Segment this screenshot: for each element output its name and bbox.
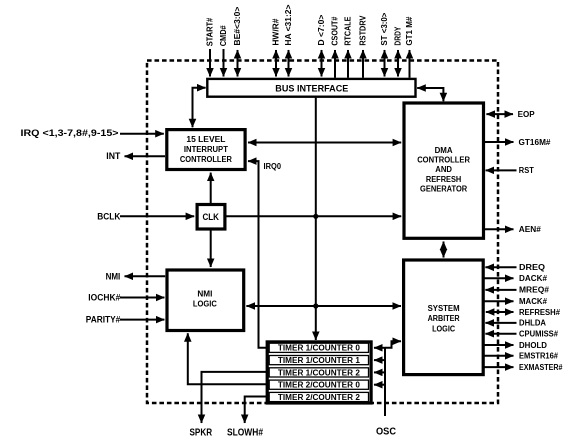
timer row TIMER 1/COUNTER 2 — [269, 368, 368, 377]
svg-text:SLOWH#: SLOWH# — [227, 428, 263, 439]
svg-text:RST: RST — [519, 166, 534, 175]
signal GT1M# — [404, 16, 414, 77]
chip boundary (dashed border) — [147, 61, 498, 404]
wire bus interface to interrupt controller (L-shaped, double arrow) — [193, 88, 206, 128]
signal BE#<3:0> — [232, 7, 242, 77]
wire bus interface down to timers (vertical trunk) — [315, 98, 317, 340]
svg-text:DREQ: DREQ — [519, 263, 545, 272]
wire bus interface to DMA top (L-shaped, double arrow) — [417, 88, 443, 101]
signal START# — [205, 18, 215, 77]
svg-text:IRQ <1,3-7,8#,9-15>: IRQ <1,3-7,8#,9-15> — [21, 128, 120, 139]
block: BUS INTERFACE U1 — [207, 79, 415, 97]
svg-text:IOCHK#: IOCHK# — [88, 293, 121, 304]
svg-text:INTERRUPT: INTERRUPT — [184, 145, 228, 154]
signal D<7:0> — [316, 15, 326, 77]
signal DHOLD output — [485, 341, 548, 350]
svg-text:LOGIC: LOGIC — [432, 325, 455, 334]
svg-text:START#: START# — [205, 18, 215, 47]
block: NMI LOGIC U4 — [167, 270, 244, 331]
signal CPUMISS# input — [485, 330, 558, 339]
signal RSTDRV — [358, 15, 368, 77]
svg-text:NMI: NMI — [106, 271, 121, 282]
svg-text:CMD#: CMD# — [218, 25, 228, 46]
wire IRQ0 from timer1/counter0 to interrupt controller — [248, 161, 282, 348]
svg-text:ST <3:0>: ST <3:0> — [379, 13, 389, 46]
signal SLOWH# output from timer2/counter2 — [227, 397, 266, 439]
signal CMD# — [218, 25, 228, 76]
svg-text:D <7:0>: D <7:0> — [316, 15, 326, 46]
signal DHLDA input — [485, 319, 546, 328]
node junction trunk x NMI-arbiter line — [313, 303, 318, 308]
timer row TIMER 2/COUNTER 0 — [269, 380, 368, 389]
signal NMI output — [106, 271, 166, 282]
block: timer/counter stack U7 — [267, 342, 371, 403]
signal PARITY# input — [86, 315, 165, 326]
svg-text:INT: INT — [106, 151, 120, 162]
svg-text:GT16M#: GT16M# — [519, 138, 552, 147]
wire DMA to system arbiter (vertical double arrow) — [443, 242, 445, 258]
svg-text:DRDY: DRDY — [393, 26, 403, 45]
signal EOP (bidirectional) — [486, 110, 535, 119]
block: 15 LEVEL INTERRUPT CONTROLLER U2 — [167, 130, 245, 170]
signal SPKR output from timer1/counter2 — [190, 372, 267, 439]
svg-text:SYSTEM: SYSTEM — [428, 304, 460, 313]
svg-text:DACK#: DACK# — [519, 274, 548, 283]
signal EMSTR16# output — [485, 352, 559, 361]
svg-text:DHLDA: DHLDA — [519, 319, 546, 328]
signal DACK# output — [485, 274, 548, 283]
signal AEN# output — [485, 225, 541, 234]
svg-text:REFRESH#: REFRESH# — [519, 308, 561, 317]
svg-text:GT1 M#: GT1 M# — [404, 16, 414, 45]
svg-text:HW/R#: HW/R# — [271, 18, 281, 45]
timer row TIMER 1/COUNTER 1 — [269, 356, 368, 365]
svg-text:GENERATOR: GENERATOR — [420, 184, 467, 193]
svg-text:REFRESH: REFRESH — [426, 175, 462, 184]
svg-text:CSOUT#: CSOUT# — [330, 16, 340, 45]
svg-text:TIMER 2/COUNTER 0: TIMER 2/COUNTER 0 — [278, 381, 361, 390]
svg-text:RTCALE: RTCALE — [343, 16, 353, 45]
svg-text:TIMER 1/COUNTER 2: TIMER 1/COUNTER 2 — [278, 368, 361, 377]
svg-text:TIMER 1/COUNTER 1: TIMER 1/COUNTER 1 — [278, 356, 361, 365]
svg-text:AEN#: AEN# — [519, 225, 542, 234]
svg-text:IRQ0: IRQ0 — [264, 162, 282, 171]
block: DMA CONTROLLER AND REFRESH GENERATOR U5 — [404, 103, 484, 238]
wire NMI-logic / system-arbiter connection line — [246, 305, 401, 307]
block: CLK divider U3 — [197, 205, 225, 230]
svg-text:CONTROLLER: CONTROLLER — [180, 155, 232, 164]
signal INT output — [106, 151, 165, 162]
svg-text:AND: AND — [435, 165, 452, 174]
signal RTCALE — [343, 16, 353, 77]
svg-text:PARITY#: PARITY# — [86, 315, 121, 326]
signal HA<31:2> — [283, 5, 293, 77]
signal MACK# output — [485, 297, 548, 306]
svg-text:BCLK: BCLK — [97, 211, 120, 222]
svg-text:OSC: OSC — [376, 427, 396, 438]
svg-text:SPKR: SPKR — [190, 428, 213, 439]
timer row TIMER 2/COUNTER 2 — [269, 392, 368, 401]
svg-text:HA <31:2>: HA <31:2> — [283, 5, 293, 46]
signal DRDY — [393, 26, 403, 76]
signal CSOUT# — [330, 16, 340, 77]
block: SYSTEM ARBITER LOGIC U6 — [404, 260, 484, 375]
signal RST input — [486, 166, 534, 175]
signal IRQ<1,3-7,8#,9-15> input — [21, 128, 164, 139]
svg-text:MREQ#: MREQ# — [519, 286, 550, 295]
svg-text:BUS INTERFACE: BUS INTERFACE — [275, 83, 348, 93]
svg-text:ARBITER: ARBITER — [428, 314, 460, 323]
signal REFRESH# bidirectional — [486, 308, 561, 317]
svg-text:EXMASTER#: EXMASTER# — [519, 363, 563, 372]
wire timer2/counter0 to NMI logic bottom — [188, 333, 266, 384]
wire interrupt controller to DMA (double arrow) — [248, 142, 401, 144]
svg-text:NMI: NMI — [197, 290, 212, 299]
svg-text:15 LEVEL: 15 LEVEL — [186, 135, 225, 144]
svg-text:DHOLD: DHOLD — [519, 341, 547, 350]
svg-text:BE#<3:0>: BE#<3:0> — [232, 7, 242, 46]
signal IOCHK# input — [88, 293, 164, 304]
signal BCLK input — [97, 211, 194, 222]
signal ST<3:0> — [379, 13, 389, 77]
svg-text:DMA: DMA — [435, 146, 453, 155]
svg-text:TIMER 1/COUNTER 0: TIMER 1/COUNTER 0 — [278, 344, 361, 353]
wire CLK to interrupt controller bottom — [210, 173, 212, 204]
svg-text:CPUMISS#: CPUMISS# — [519, 330, 559, 339]
svg-text:MACK#: MACK# — [519, 297, 548, 306]
node junction trunk x CLK line — [313, 214, 318, 219]
svg-text:EOP: EOP — [518, 110, 536, 119]
signal HW/R# — [271, 18, 281, 76]
svg-text:RSTDRV: RSTDRV — [358, 15, 368, 45]
signal MREQ# input — [485, 286, 549, 295]
signal DREQ input — [485, 263, 545, 272]
wire CLK to NMI logic top — [210, 230, 212, 268]
svg-text:CLK: CLK — [202, 212, 219, 223]
svg-text:TIMER 2/COUNTER 2: TIMER 2/COUNTER 2 — [278, 393, 361, 402]
signal EXMASTER# output — [485, 363, 563, 372]
wire CLK to DMA controller — [226, 215, 401, 217]
signal GT16M# output — [485, 138, 551, 147]
timer row TIMER 1/COUNTER 0 — [269, 343, 368, 352]
signal OSC input with branches to timers and arbiter — [374, 341, 401, 437]
svg-text:EMSTR16#: EMSTR16# — [519, 352, 559, 361]
svg-text:LOGIC: LOGIC — [193, 300, 217, 309]
svg-text:CONTROLLER: CONTROLLER — [417, 156, 470, 165]
